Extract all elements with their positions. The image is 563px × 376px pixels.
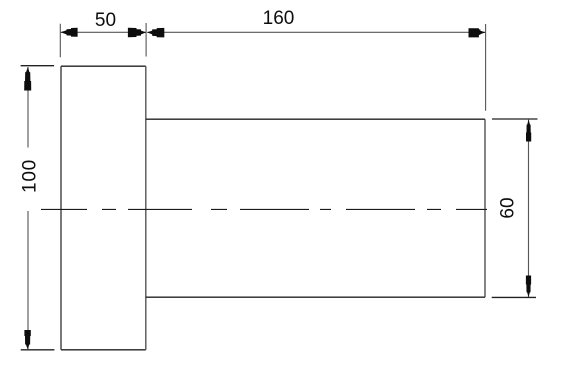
svg-text:60: 60	[497, 197, 518, 218]
svg-text:100: 100	[19, 159, 40, 193]
svg-text:160: 160	[263, 8, 295, 29]
svg-text:50: 50	[95, 10, 116, 31]
